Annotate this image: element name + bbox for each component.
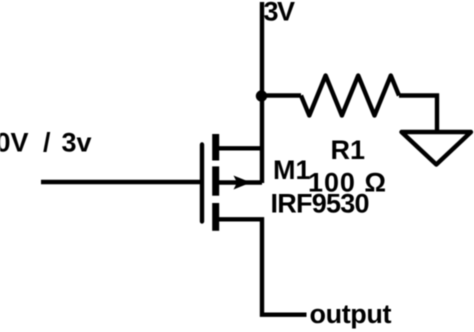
wire node to resistor R1 left lead bbox=[262, 93, 301, 97]
wire 3V rail (vertical from 3V down to MOSFET drain/body) bbox=[260, 2, 264, 183]
transistor M1 body arrow (P-channel, pointing right) bbox=[234, 176, 252, 190]
transistor M1 gate plate bbox=[200, 145, 204, 222]
wire M1 top bar to 3V rail bbox=[217, 146, 262, 150]
wire resistor R1 right lead to ground bbox=[399, 96, 437, 132]
svg-text:/: / bbox=[43, 127, 51, 157]
wire M1 body bar to 3V rail bbox=[217, 180, 262, 184]
svg-text:R1: R1 bbox=[331, 135, 366, 165]
svg-text:M1: M1 bbox=[273, 155, 311, 185]
transistor M1 middle channel bar (body) bbox=[212, 166, 219, 195]
svg-text:3v: 3v bbox=[62, 127, 92, 157]
wire M1 bottom bar to output bbox=[217, 219, 307, 314]
svg-text:3V: 3V bbox=[264, 0, 296, 26]
svg-text:0V: 0V bbox=[0, 127, 29, 157]
svg-text:IRF9530: IRF9530 bbox=[271, 189, 370, 219]
junction dot at 3V node bbox=[256, 90, 267, 101]
transistor M1 top channel bar (source) bbox=[212, 134, 219, 161]
resistor R1 zigzag body bbox=[301, 76, 399, 116]
wire gate input bbox=[41, 180, 201, 184]
svg-text:output: output bbox=[310, 299, 392, 329]
ground symbol bbox=[402, 132, 472, 165]
transistor M1 bottom channel bar (drain) bbox=[212, 203, 219, 231]
